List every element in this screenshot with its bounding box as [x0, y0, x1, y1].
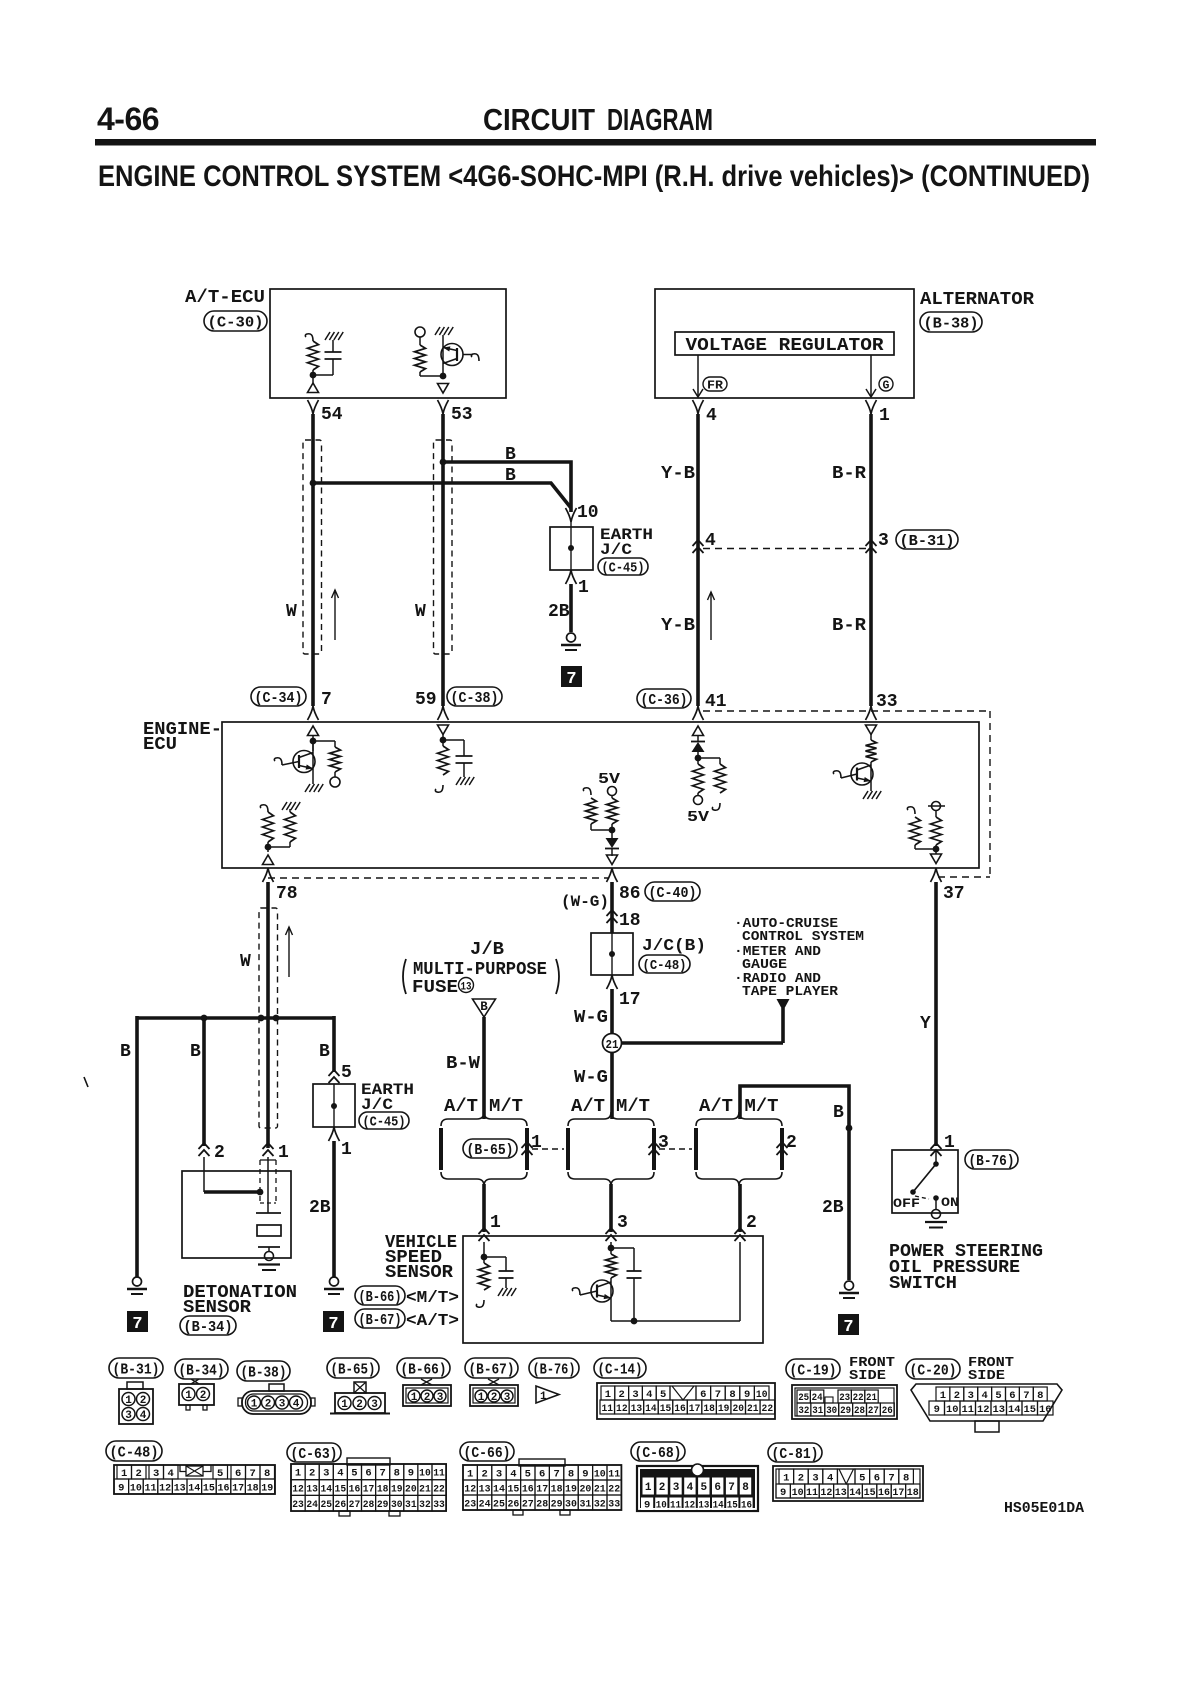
svg-text:VOLTAGE REGULATOR: VOLTAGE REGULATOR — [686, 336, 884, 356]
resistor in A/T-ECU pin54 branch — [305, 334, 318, 370]
svg-text:2: 2 — [481, 1468, 487, 1480]
svg-text:17: 17 — [619, 990, 641, 1010]
svg-text:9: 9 — [744, 1389, 750, 1401]
wire VSS pin3 internal — [610, 1242, 612, 1254]
svg-text:9: 9 — [582, 1468, 588, 1480]
svg-text:15: 15 — [727, 1500, 738, 1512]
svg-text:2: 2 — [746, 1213, 757, 1233]
wire B-R alternator G — [869, 414, 873, 706]
svg-text:9: 9 — [408, 1468, 414, 1480]
svg-text:A/T-ECU: A/T-ECU — [185, 288, 265, 308]
label W-G upper — [574, 1008, 608, 1028]
connector label C-63 bottom — [287, 1443, 341, 1463]
svg-text:A/T: A/T — [444, 1097, 478, 1117]
svg-text:16: 16 — [878, 1487, 890, 1499]
svg-text:<A/T>: <A/T> — [406, 1312, 459, 1331]
svg-text:<M/T>: <M/T> — [406, 1289, 459, 1308]
pin 1 terminal alternator — [866, 400, 891, 426]
shield dashed segment into sensor — [260, 1160, 276, 1203]
svg-text:6: 6 — [714, 1482, 721, 1494]
svg-text:SIDE: SIDE — [849, 1369, 886, 1384]
svg-text:(B-67): (B-67) — [469, 1361, 515, 1378]
node J/C B — [609, 951, 615, 957]
svg-text:14: 14 — [713, 1500, 724, 1512]
direction arrow wire 78 — [286, 927, 293, 977]
label 2B upper — [548, 602, 570, 622]
node junction pin53 branch — [440, 373, 447, 380]
svg-text:10: 10 — [419, 1468, 431, 1480]
svg-text:16: 16 — [349, 1483, 361, 1495]
terminal triangle ECU pin37 — [931, 854, 942, 864]
svg-text:25: 25 — [798, 1393, 809, 1404]
terminal triangle ECU pin41 — [693, 726, 704, 742]
svg-text:29: 29 — [551, 1498, 563, 1510]
wire VSS pin1 internal — [483, 1242, 485, 1263]
svg-text:11: 11 — [602, 1403, 614, 1415]
svg-text:13: 13 — [993, 1404, 1006, 1416]
resistor ECU pin78 right — [268, 802, 300, 847]
label VEHICLE SPEED SENSOR — [385, 1233, 457, 1283]
svg-text:7: 7 — [728, 1482, 735, 1494]
svg-text:19: 19 — [391, 1483, 403, 1495]
svg-text:14: 14 — [1008, 1404, 1021, 1416]
svg-text:1: 1 — [411, 1392, 418, 1404]
svg-text:7: 7 — [888, 1473, 894, 1485]
capacitor VSS pin3 — [627, 1248, 642, 1321]
node pin41 — [695, 755, 720, 762]
connector pair 3 A/T-M/T — [694, 1097, 797, 1186]
svg-text:13: 13 — [306, 1483, 318, 1495]
svg-text:(C-40): (C-40) — [649, 885, 697, 902]
wire pin2 inside sensor — [203, 1157, 205, 1192]
pin 53 terminal — [438, 400, 473, 425]
svg-text:10: 10 — [792, 1487, 804, 1499]
svg-text:15: 15 — [507, 1483, 519, 1495]
chevron pin 5 C-45 — [329, 1063, 352, 1083]
svg-text:B: B — [120, 1042, 131, 1062]
label A/T-ECU — [185, 288, 265, 308]
node ECU pin7 — [310, 738, 335, 745]
svg-text:24: 24 — [479, 1498, 491, 1510]
ground earth B left — [127, 1277, 147, 1294]
terminal circle ECU pin7 branch — [330, 777, 340, 787]
svg-text:W: W — [240, 952, 251, 972]
terminal triangle pin53 — [438, 384, 449, 394]
svg-text:2: 2 — [309, 1468, 315, 1480]
wire W pin78 down — [266, 882, 270, 1148]
svg-text:27: 27 — [522, 1498, 534, 1510]
svg-text:(C-81): (C-81) — [772, 1446, 819, 1463]
svg-text:Y-B: Y-B — [661, 464, 695, 484]
svg-text:32: 32 — [594, 1498, 606, 1510]
direction arrow Y-B wire — [708, 592, 715, 640]
svg-text:54: 54 — [321, 405, 343, 425]
svg-text:SENSOR: SENSOR — [183, 1298, 251, 1318]
svg-text:5: 5 — [351, 1468, 357, 1480]
label B-R lower — [832, 616, 866, 636]
connector label B-34 lower — [180, 1316, 236, 1336]
svg-text:18: 18 — [247, 1483, 259, 1495]
EARTH J/C box C-45 lower — [313, 1084, 355, 1127]
connector C-68 drawing — [637, 1464, 758, 1512]
svg-text:2: 2 — [798, 1473, 804, 1485]
svg-text:13: 13 — [479, 1483, 491, 1495]
wire B to earth J/C 2 — [332, 1016, 336, 1072]
svg-text:1: 1 — [121, 1468, 127, 1480]
connector label C-40 — [645, 882, 700, 902]
wire pair3 to VSS — [740, 1184, 757, 1233]
svg-text:2: 2 — [424, 1392, 431, 1404]
detonation sensor case ground — [258, 1252, 280, 1271]
svg-text:ECU: ECU — [143, 735, 177, 755]
svg-text:7: 7 — [553, 1468, 559, 1480]
svg-text:TAPE PLAYER: TAPE PLAYER — [742, 984, 839, 1000]
node B bus shield left — [258, 1015, 265, 1022]
svg-text:32: 32 — [419, 1499, 431, 1511]
pin 37 terminal — [931, 868, 965, 904]
svg-text:7: 7 — [379, 1468, 385, 1480]
transistor ECU pin33 — [833, 762, 881, 799]
svg-text:17: 17 — [232, 1483, 244, 1495]
wire Y pin37 — [934, 882, 938, 1146]
pin 1 terminal earth J/C lower — [329, 1127, 353, 1160]
svg-text:14: 14 — [188, 1483, 200, 1495]
terminal circle 5V pin41 — [694, 796, 703, 805]
svg-text:11: 11 — [962, 1404, 975, 1416]
document code HS05E01DA — [1004, 1501, 1084, 1517]
pin 10 terminal earth J/C — [566, 503, 599, 523]
label Y-B upper — [661, 464, 695, 484]
label B right branch — [319, 1042, 330, 1062]
wire 54 to C-34 — [311, 414, 315, 706]
svg-text:7: 7 — [1023, 1390, 1029, 1402]
connector C-81 drawing — [773, 1466, 923, 1501]
svg-text:1: 1 — [940, 1390, 946, 1402]
transistor VSS — [572, 1278, 613, 1321]
svg-text:12: 12 — [292, 1483, 304, 1495]
svg-text:4: 4 — [706, 406, 717, 426]
svg-text:B: B — [833, 1103, 844, 1123]
shield dashed around wire W 54 — [303, 440, 322, 654]
label W right wire — [415, 602, 426, 622]
fuse B triangle — [473, 999, 496, 1017]
svg-text:3: 3 — [812, 1473, 818, 1485]
svg-text:(B-66): (B-66) — [401, 1361, 447, 1378]
transistor ECU pin7 — [274, 741, 323, 792]
node sensor shield link — [257, 1189, 264, 1196]
svg-text:3: 3 — [878, 531, 889, 551]
connector B-31 drawing — [119, 1382, 153, 1424]
svg-text:2: 2 — [356, 1399, 363, 1411]
wire B upper — [443, 462, 571, 512]
svg-text:11: 11 — [433, 1468, 445, 1480]
svg-text:3: 3 — [504, 1392, 511, 1404]
chevron VSS pin2 — [735, 1228, 746, 1241]
resistor ECU pin37 right — [931, 817, 942, 854]
svg-text:27: 27 — [349, 1499, 361, 1511]
terminal triangle ECU pin78 — [263, 855, 274, 865]
svg-text:16: 16 — [741, 1500, 752, 1512]
label ALTERNATOR — [920, 290, 1034, 310]
connector label B-38 bottom — [237, 1361, 290, 1381]
svg-text:4: 4 — [510, 1468, 516, 1480]
resistor ECU pin59 — [435, 746, 448, 792]
svg-text:9: 9 — [644, 1500, 650, 1512]
connector pair B-65 A/T-M/T — [439, 1097, 542, 1186]
pin 41 terminal — [693, 706, 704, 720]
svg-text:13: 13 — [698, 1500, 709, 1512]
svg-text:12: 12 — [977, 1404, 990, 1416]
svg-text:SWITCH: SWITCH — [889, 1274, 957, 1294]
svg-text:4: 4 — [981, 1390, 987, 1402]
svg-text:3: 3 — [323, 1468, 329, 1480]
svg-text:1: 1 — [490, 1213, 501, 1233]
svg-text:12: 12 — [159, 1483, 171, 1495]
label B leftmost — [120, 1042, 131, 1062]
connector label C-38 — [447, 687, 502, 707]
svg-text:23: 23 — [464, 1498, 476, 1510]
svg-text:5V: 5V — [687, 809, 709, 826]
wire B from pair3 — [740, 1086, 849, 1280]
svg-text:4: 4 — [293, 1398, 300, 1410]
svg-text:(C-34): (C-34) — [255, 690, 303, 707]
svg-text:1: 1 — [341, 1140, 352, 1160]
terminal label G — [879, 377, 893, 393]
svg-text:B: B — [505, 445, 516, 465]
switch contact blade — [910, 1150, 939, 1195]
svg-text:(B-67): (B-67) — [359, 1312, 402, 1329]
svg-text:3: 3 — [968, 1390, 974, 1402]
label B-R upper — [832, 464, 866, 484]
node earth J/C upper — [568, 545, 574, 551]
wire VSS bottom link — [611, 1242, 740, 1321]
svg-text:1: 1 — [295, 1468, 301, 1480]
svg-text:20: 20 — [732, 1403, 744, 1415]
connector C-20 drawing — [911, 1384, 1062, 1432]
chevron VSS pin1 — [479, 1228, 490, 1241]
svg-text:7: 7 — [328, 1315, 338, 1334]
svg-text:18: 18 — [907, 1487, 919, 1499]
svg-text:20: 20 — [405, 1483, 417, 1495]
svg-text:8: 8 — [903, 1473, 909, 1485]
svg-text:3: 3 — [632, 1389, 638, 1401]
svg-text:7: 7 — [715, 1389, 721, 1401]
svg-text:31: 31 — [405, 1499, 417, 1511]
wire W-G lower — [610, 1052, 614, 1119]
svg-text:19: 19 — [718, 1403, 730, 1415]
svg-text:12: 12 — [684, 1500, 695, 1512]
svg-text:3: 3 — [617, 1213, 628, 1233]
svg-text:33: 33 — [608, 1498, 620, 1510]
diode pin86 — [605, 838, 619, 856]
svg-text:24: 24 — [306, 1499, 318, 1511]
svg-text:5: 5 — [217, 1468, 223, 1480]
svg-text:21: 21 — [866, 1393, 877, 1404]
svg-text:23: 23 — [839, 1393, 850, 1404]
svg-text:25: 25 — [320, 1499, 332, 1511]
svg-text:2: 2 — [136, 1468, 142, 1480]
svg-text:B: B — [319, 1042, 330, 1062]
svg-text:J/C: J/C — [600, 541, 632, 559]
ground point 7 left — [127, 1311, 148, 1334]
direction arrow wire 54 — [332, 590, 339, 640]
ground earth 2B lower — [324, 1277, 344, 1294]
pin 41 label — [705, 692, 727, 712]
svg-text:8: 8 — [729, 1389, 735, 1401]
svg-text:1: 1 — [185, 1390, 192, 1402]
resistor ECU pin7 branch — [330, 741, 341, 777]
svg-text:16: 16 — [522, 1483, 534, 1495]
svg-text:86: 86 — [619, 884, 641, 904]
svg-text:(C-14): (C-14) — [598, 1361, 643, 1378]
svg-text:10: 10 — [946, 1404, 959, 1416]
svg-text:M/T: M/T — [616, 1097, 650, 1117]
svg-text:12: 12 — [464, 1483, 476, 1495]
svg-text:M/T: M/T — [745, 1097, 779, 1117]
svg-text:22: 22 — [853, 1393, 864, 1404]
label B detonation — [190, 1042, 201, 1062]
connector B-67 drawing — [470, 1379, 518, 1406]
shield dashed around wire W 53 — [434, 440, 453, 654]
dashed link pair2-pair3 — [659, 1148, 692, 1150]
svg-text:3: 3 — [371, 1399, 378, 1411]
connector label C-20 bottom — [906, 1359, 960, 1379]
terminal circle pin37 — [928, 802, 945, 818]
wire pair2 to VSS — [611, 1184, 628, 1233]
svg-text:B: B — [505, 466, 516, 486]
label J/C (B) — [642, 937, 706, 956]
svg-text:6: 6 — [700, 1389, 706, 1401]
svg-text:(B-34): (B-34) — [179, 1362, 225, 1379]
pin 4 terminal alternator — [693, 400, 718, 426]
svg-text:1: 1 — [125, 1395, 132, 1407]
pin 33 terminal — [866, 706, 877, 720]
svg-text:4: 4 — [337, 1468, 343, 1480]
label EARTH J/C upper — [600, 526, 653, 559]
label (W-G) — [561, 893, 609, 911]
connector B-66 drawing — [403, 1379, 451, 1406]
svg-text:29: 29 — [377, 1499, 389, 1511]
svg-text:1: 1 — [645, 1482, 652, 1494]
label ENGINE-ECU — [143, 720, 222, 755]
ENGINE ECU dashed connector outline — [268, 711, 990, 878]
svg-text:5: 5 — [660, 1389, 666, 1401]
svg-text:4: 4 — [687, 1482, 694, 1494]
svg-text:(C-68): (C-68) — [635, 1445, 682, 1462]
node VSS pin3 — [608, 1245, 634, 1252]
svg-text:30: 30 — [826, 1406, 837, 1417]
svg-text:33: 33 — [433, 1499, 445, 1511]
connector label C-45 upper — [598, 558, 648, 576]
svg-text:(C-63): (C-63) — [291, 1446, 338, 1463]
label 2B right — [822, 1198, 844, 1218]
svg-text:W: W — [415, 602, 426, 622]
svg-text:2: 2 — [200, 1390, 207, 1402]
svg-text:OFF: OFF — [893, 1197, 920, 1211]
J/C (B) box C-48 — [591, 933, 633, 975]
pin 59 terminal — [438, 706, 449, 720]
svg-text:(B-76): (B-76) — [969, 1153, 1015, 1170]
label J/B — [470, 940, 504, 960]
svg-text:5: 5 — [995, 1390, 1001, 1402]
svg-text:13: 13 — [461, 982, 472, 994]
svg-text:11: 11 — [670, 1500, 681, 1512]
page header text CIRCUIT DIAGRAM — [483, 102, 713, 137]
svg-text:(W-G): (W-G) — [561, 893, 609, 911]
ground point 7 right — [838, 1314, 859, 1337]
svg-text:31: 31 — [579, 1498, 591, 1510]
connector label C-19 bottom — [786, 1359, 840, 1379]
connector label B-31 inline — [896, 530, 958, 550]
svg-text:FR: FR — [707, 380, 723, 393]
svg-text:(B-76): (B-76) — [533, 1361, 576, 1378]
svg-text:J/C(B): J/C(B) — [642, 937, 706, 956]
connector C-48 drawing — [114, 1465, 275, 1495]
svg-text:10: 10 — [577, 503, 599, 523]
svg-text:10: 10 — [756, 1389, 768, 1401]
svg-text:2B: 2B — [309, 1198, 331, 1218]
svg-text:B-R: B-R — [832, 464, 866, 484]
svg-text:4: 4 — [140, 1410, 147, 1422]
svg-text:ALTERNATOR: ALTERNATOR — [920, 290, 1034, 310]
resistor pin86 left — [583, 788, 612, 830]
capacitor in A/T-ECU pin54 branch — [313, 332, 343, 375]
wire W-G upper — [610, 989, 614, 1034]
pin 86 terminal — [607, 868, 641, 904]
label 2B lower — [309, 1198, 331, 1218]
svg-text:6: 6 — [1009, 1390, 1015, 1402]
label FRONT SIDE C-20 — [968, 1356, 1014, 1384]
chevron pin1 detonation — [263, 1143, 290, 1163]
svg-text:37: 37 — [943, 884, 965, 904]
svg-text:(B-34): (B-34) — [184, 1319, 233, 1336]
label B lower — [505, 466, 516, 486]
capacitor VSS pin1 — [498, 1257, 516, 1296]
svg-text:A/T: A/T — [699, 1097, 733, 1117]
pin 78 terminal — [263, 868, 298, 904]
terminal label FR — [703, 377, 727, 393]
svg-text:18: 18 — [619, 911, 641, 931]
svg-text:SENSOR: SENSOR — [385, 1263, 453, 1283]
svg-text:5: 5 — [700, 1482, 707, 1494]
svg-text:78: 78 — [276, 884, 298, 904]
svg-text:9: 9 — [780, 1487, 786, 1499]
svg-text:(C-19): (C-19) — [790, 1362, 837, 1379]
svg-text:8: 8 — [742, 1482, 749, 1494]
pin 7 label — [321, 690, 332, 710]
svg-text:5V: 5V — [598, 771, 620, 788]
VEHICLE SPEED SENSOR box — [463, 1236, 763, 1343]
ground point 7 mid — [323, 1311, 344, 1334]
svg-text:26: 26 — [507, 1498, 519, 1510]
svg-text:32: 32 — [798, 1406, 809, 1417]
svg-text:15: 15 — [660, 1403, 672, 1415]
connector label C-48 bottom — [106, 1441, 162, 1461]
connector label B-67 — [355, 1309, 459, 1331]
chevron VSS pin3 — [606, 1228, 617, 1241]
svg-text:HS05E01DA: HS05E01DA — [1004, 1501, 1084, 1517]
svg-text:28: 28 — [854, 1406, 865, 1417]
label accessory list — [734, 916, 864, 1000]
terminal triangle ECU pin86 — [607, 855, 618, 865]
svg-text:W-G: W-G — [574, 1068, 608, 1088]
node earth J/C lower — [331, 1103, 337, 1109]
ENGINE ECU box — [222, 722, 979, 868]
svg-text:5: 5 — [341, 1063, 352, 1083]
svg-text:16: 16 — [1039, 1404, 1052, 1416]
svg-text:1: 1 — [540, 1391, 547, 1403]
label EARTH J/C lower — [361, 1081, 414, 1114]
